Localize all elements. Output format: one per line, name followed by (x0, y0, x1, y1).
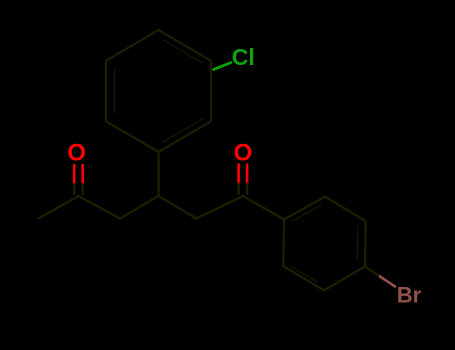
bond ring1 to CH (157, 152, 159, 196)
bond C=O right to ring 2 (243, 196, 284, 220)
benzene ring 1 (chlorophenyl) (106, 30, 211, 152)
bond to Br olive half (365, 267, 380, 277)
C=O left double bond olive halves (74, 184, 83, 194)
benzene ring 2 (bromophenyl) (283, 197, 365, 291)
svg-text:O: O (234, 140, 253, 167)
ring 2 inner aromatic bond a (292, 205, 322, 222)
C=O right double bond olive halves (239, 184, 248, 195)
svg-text:Br: Br (397, 283, 422, 308)
ring 1 inner aromatic bond b (163, 119, 203, 142)
svg-text:O: O (67, 140, 86, 167)
ring 2 inner aromatic bond b (356, 227, 358, 260)
bond to Br brown half (380, 277, 395, 287)
bond CH2 to C=O right (197, 196, 244, 219)
ring 1 inner aromatic bond a (163, 40, 203, 63)
bond CH to CH2 right (159, 196, 197, 219)
bond C to CH3 (39, 196, 79, 219)
ring 2 inner aromatic bond c (291, 267, 317, 282)
ring 1 inner aromatic bond c (114, 69, 116, 113)
C=O left double bond red halves (74, 165, 83, 184)
svg-text:Cl: Cl (232, 44, 255, 70)
bond Cl (green) (214, 63, 232, 70)
bond CH to CH2 left (120, 196, 159, 219)
bond CH2 to C=O left (78, 196, 120, 219)
C=O right double bond red halves (239, 165, 248, 184)
